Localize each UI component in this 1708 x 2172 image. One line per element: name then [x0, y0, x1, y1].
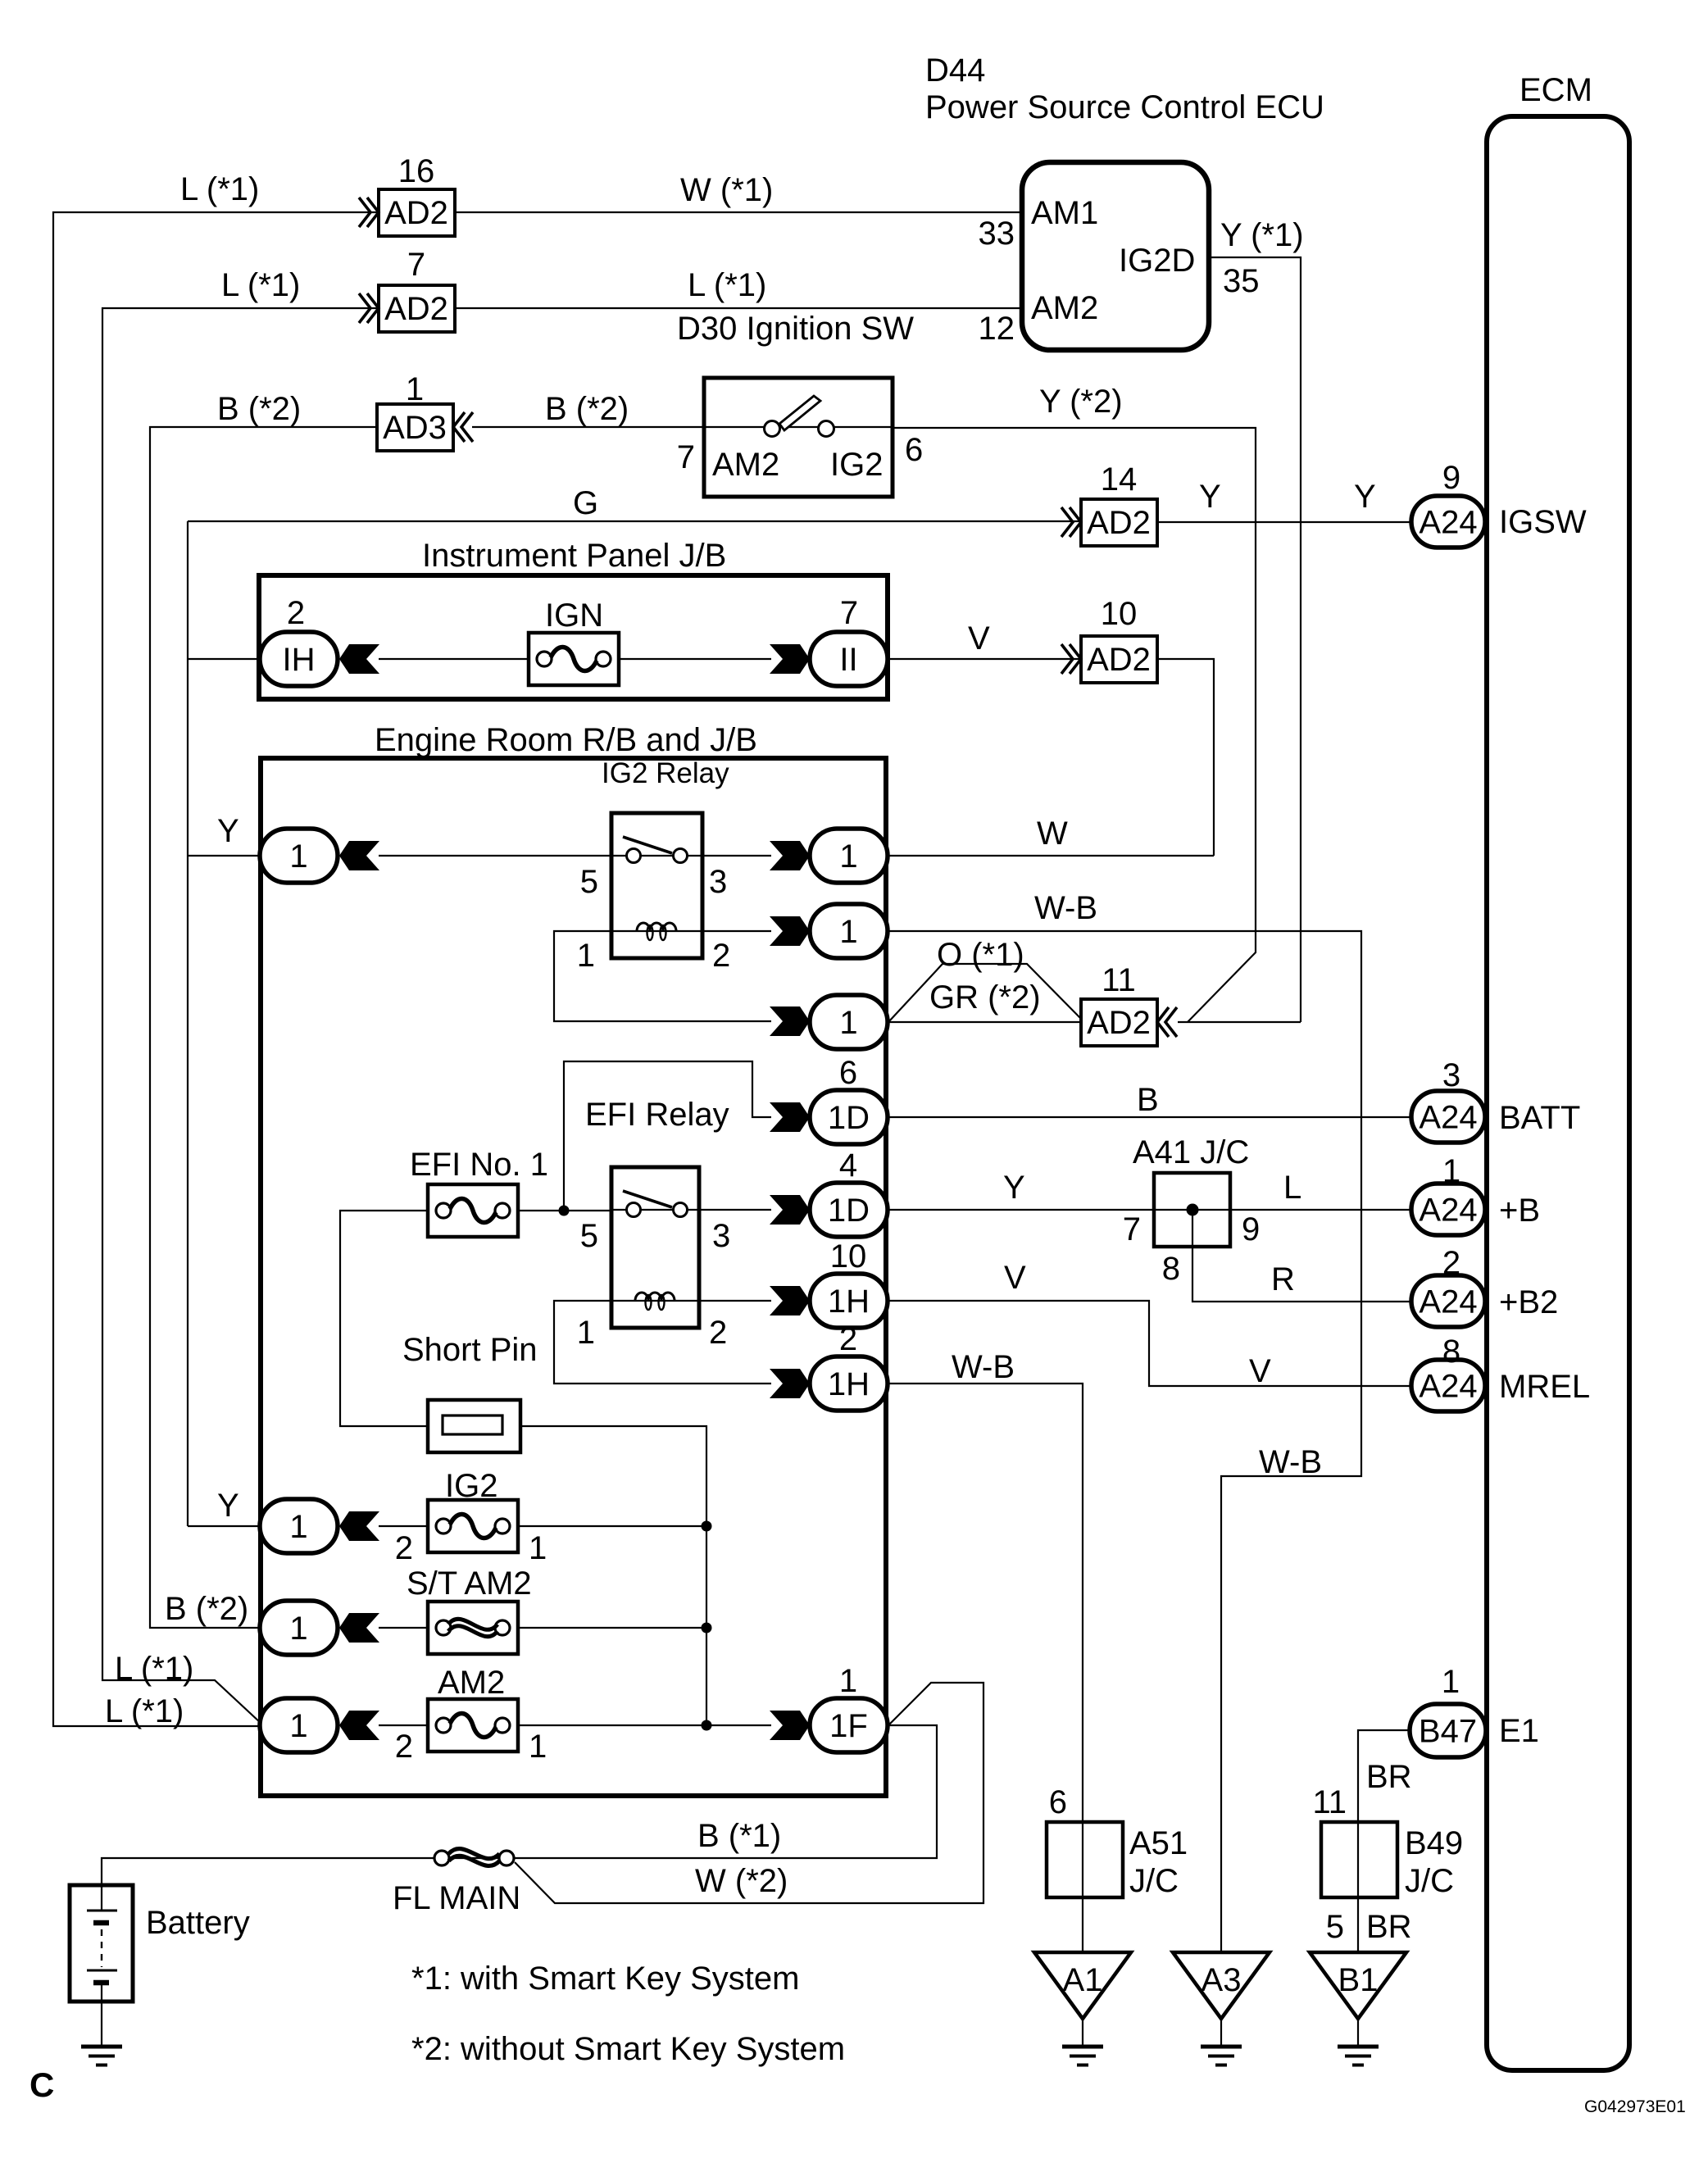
connector 1 (IG2 relay output) — [810, 829, 888, 883]
svg-text:AM2: AM2 — [712, 447, 779, 483]
svg-text:AD2: AD2 — [1087, 505, 1151, 541]
svg-text:AD2: AD2 — [384, 291, 448, 327]
wire from S/T AM2 fusible link to center bus — [379, 1627, 428, 1629]
svg-text:2: 2 — [1442, 1245, 1460, 1281]
svg-text:AM2: AM2 — [1031, 290, 1098, 326]
svg-text:B1: B1 — [1338, 1962, 1379, 1998]
svg-text:J/C: J/C — [1405, 1863, 1454, 1899]
wire from IG2 relay coil pin 2 to connector 1 — [702, 930, 771, 932]
junction connector A51 J/C — [1047, 1822, 1123, 1897]
Engine Room R/B and J/B box — [261, 758, 886, 1796]
ground triangle B1 — [1310, 1952, 1406, 2019]
wire from IGN fuse to connector II — [619, 658, 771, 660]
svg-text:L (*1): L (*1) — [105, 1693, 184, 1729]
ground triangle A1 — [1034, 1952, 1131, 2019]
svg-text:AD2: AD2 — [384, 195, 448, 231]
svg-text:IH: IH — [283, 642, 316, 678]
svg-text:1: 1 — [529, 1530, 547, 1566]
svg-text:L: L — [1283, 1170, 1301, 1206]
svg-text:BR: BR — [1366, 1759, 1412, 1795]
ground below battery — [81, 2045, 122, 2049]
svg-text:A3: A3 — [1202, 1962, 1242, 1998]
svg-text:IG2D: IG2D — [1119, 243, 1195, 279]
svg-text:8: 8 — [1442, 1334, 1460, 1370]
connector 1 (S/T AM2) — [260, 1601, 338, 1655]
svg-text:AM1: AM1 — [1031, 195, 1098, 231]
junction connector A41 J/C — [1154, 1173, 1230, 1247]
arrow into connector 1D pin 4 — [770, 1195, 810, 1225]
svg-text:AD2: AD2 — [1087, 1005, 1151, 1041]
connector 1D pin 6 — [810, 1090, 888, 1144]
wire Y stub to IG2 relay connector 1 — [188, 855, 261, 857]
ECM connector A24 pin 8 MREL — [1411, 1360, 1485, 1411]
svg-text:Y: Y — [1003, 1170, 1025, 1206]
wire through ignition switch — [704, 426, 893, 428]
svg-text:1F: 1F — [829, 1708, 868, 1744]
wire G from bus to AD2 14 — [188, 520, 1081, 522]
svg-text:Battery: Battery — [146, 1905, 250, 1941]
wire O(*1) upper branch of split to AD2 11 — [888, 964, 1081, 1022]
wire L from A41 J/C pin 9 to ECM A24 pin 1 +B — [1230, 1209, 1411, 1211]
connector AD2 pin 7 — [359, 293, 379, 323]
svg-text:R: R — [1271, 1261, 1295, 1297]
svg-text:B: B — [1137, 1082, 1159, 1118]
ECM connector A24 pin 9 IGSW — [1411, 496, 1485, 548]
ECM connector B47 pin 1 E1 — [1410, 1704, 1486, 1757]
svg-text:L (*1): L (*1) — [180, 171, 259, 207]
connector 1 (coil feed) — [810, 995, 888, 1049]
wire from connector to IG2 relay pin 5 — [379, 855, 611, 857]
arrow into connector 1H pin 10 — [770, 1286, 810, 1315]
svg-text:V: V — [1249, 1353, 1271, 1389]
wire stub to IH connector — [188, 658, 261, 660]
svg-text:V: V — [1004, 1260, 1026, 1296]
svg-text:B49: B49 — [1405, 1825, 1463, 1861]
wire Y stub to IG2 fuse connector 1 — [188, 1525, 261, 1527]
svg-text:1: 1 — [289, 1509, 307, 1545]
wire from EFI relay coil pin 1 to connector 1H pin 2 — [554, 1301, 771, 1384]
svg-text:IG2 Relay: IG2 Relay — [602, 757, 729, 789]
svg-text:11: 11 — [1312, 1784, 1347, 1820]
svg-text:6: 6 — [905, 432, 923, 468]
D44 Power Source Control ECU block — [1022, 162, 1209, 350]
wire V from connector II to AD2 10 — [888, 658, 1081, 660]
svg-text:W (*1): W (*1) — [680, 172, 773, 208]
wire W(*1) from AD2 16 to D44 AM1 pin 33 — [455, 211, 1022, 213]
svg-text:B (*1): B (*1) — [697, 1818, 781, 1854]
svg-text:35: 35 — [1223, 263, 1260, 299]
arrow into connector 1D pin 6 — [770, 1102, 810, 1132]
svg-text:4: 4 — [839, 1147, 857, 1184]
svg-text:GR (*2): GR (*2) — [929, 979, 1041, 1016]
svg-text:II: II — [839, 642, 857, 678]
svg-text:Engine Room R/B and J/B: Engine Room R/B and J/B — [375, 722, 757, 758]
svg-text:11: 11 — [1102, 962, 1136, 998]
svg-text:EFI Relay: EFI Relay — [585, 1097, 729, 1133]
svg-text:1: 1 — [289, 1708, 307, 1744]
svg-text:1: 1 — [577, 938, 595, 974]
D30 ignition switch box — [704, 378, 893, 497]
svg-text:1: 1 — [839, 838, 857, 875]
Instrument Panel J/B box — [259, 575, 888, 699]
wire from IG2 relay coil pin 1 to connector 1 row3 — [554, 931, 771, 1021]
svg-text:9: 9 — [1442, 460, 1460, 496]
svg-text:Y: Y — [217, 1488, 239, 1524]
fuse EFI No. 1 — [428, 1184, 518, 1237]
wire W-B from connector 1H down through A51 J/C to A1 ground — [888, 1384, 1083, 1952]
svg-text:2: 2 — [287, 595, 305, 631]
arrow into connector 1 row2 — [770, 916, 810, 946]
svg-text:G042973E01: G042973E01 — [1584, 2097, 1686, 2116]
svg-text:L (*1): L (*1) — [688, 267, 766, 303]
connector AD2 pin 11 — [1081, 999, 1157, 1046]
svg-text:7: 7 — [407, 247, 425, 283]
svg-text:16: 16 — [398, 153, 435, 189]
svg-text:1: 1 — [529, 1729, 547, 1765]
connector 1 (AM2 fuse) — [260, 1698, 338, 1752]
svg-text:A24: A24 — [1419, 1369, 1477, 1405]
svg-text:1D: 1D — [828, 1100, 870, 1136]
ECM connector block — [1487, 116, 1629, 2070]
wire stub A1 triangle to ground — [1082, 2019, 1083, 2047]
svg-text:1: 1 — [406, 371, 424, 407]
wire from AD2 10 down to W wire — [1157, 659, 1214, 856]
svg-text:Power Source Control ECU: Power Source Control ECU — [925, 89, 1324, 125]
ground symbol B1 — [1338, 2045, 1379, 2049]
svg-text:IG2: IG2 — [830, 447, 883, 483]
svg-text:2: 2 — [709, 1315, 727, 1351]
junction center bus / AM2 fuse — [702, 1720, 712, 1731]
wire L(*1) from AD2 7 down left bus 2 — [102, 308, 379, 1724]
svg-text:W (*2): W (*2) — [695, 1863, 788, 1899]
svg-text:6: 6 — [1049, 1784, 1067, 1820]
svg-text:7: 7 — [840, 595, 858, 631]
svg-text:Instrument Panel J/B: Instrument Panel J/B — [422, 538, 726, 574]
connector II pin 7 — [810, 632, 888, 686]
svg-text:B47: B47 — [1419, 1714, 1477, 1750]
arrow into IH — [339, 644, 379, 674]
wire from battery negative to ground — [101, 2002, 102, 2047]
wire from FL MAIN to battery — [102, 1858, 434, 1888]
svg-text:3: 3 — [1442, 1057, 1460, 1093]
svg-text:EFI No. 1: EFI No. 1 — [410, 1147, 548, 1183]
svg-text:L (*1): L (*1) — [221, 267, 300, 303]
wire B(*2) from AD3 to S/T AM2 connector (left bus 3) — [150, 427, 377, 1628]
svg-text:2: 2 — [395, 1530, 413, 1566]
wire BR from ECM B47 pin 1 E1 through B49 J/C to B1 ground — [1358, 1730, 1410, 1952]
wire EFI relay pin5 loop up to connector 1D pin 6 — [564, 1061, 771, 1211]
svg-text:1: 1 — [839, 1005, 857, 1041]
connector 1H pin 10 — [810, 1274, 888, 1328]
connector AD2 pin 14 — [1061, 507, 1081, 537]
svg-text:A51: A51 — [1129, 1825, 1188, 1861]
svg-text:1: 1 — [289, 1611, 307, 1647]
svg-text:+B: +B — [1499, 1193, 1540, 1229]
svg-text:W-B: W-B — [1259, 1444, 1322, 1480]
svg-text:7: 7 — [1123, 1211, 1141, 1247]
short pin component — [428, 1400, 520, 1452]
svg-text:BATT: BATT — [1499, 1100, 1580, 1136]
junction center bus / IG2 fuse — [702, 1521, 712, 1532]
wire W from IG2 relay output 1 — [888, 855, 1214, 857]
svg-text:J/C: J/C — [1129, 1863, 1179, 1899]
connector 1 (IG2 relay input) — [260, 829, 338, 883]
svg-text:O (*1): O (*1) — [937, 937, 1024, 973]
svg-text:2: 2 — [839, 1321, 857, 1357]
svg-text:2: 2 — [395, 1729, 413, 1765]
wire L(*1) from AD2 7 to D44 AM2 pin 12 — [455, 307, 1022, 309]
battery — [70, 1885, 133, 2002]
ignition switch contacts and blade — [779, 396, 820, 430]
svg-text:A1: A1 — [1063, 1962, 1103, 1998]
svg-text:6: 6 — [839, 1055, 857, 1091]
svg-text:7: 7 — [677, 439, 695, 475]
svg-text:A24: A24 — [1419, 1100, 1477, 1136]
arrow into connector 1 row3 — [770, 1006, 810, 1036]
arrow into connector 1H pin 2 — [770, 1369, 810, 1398]
svg-text:B (*2): B (*2) — [165, 1591, 248, 1627]
wire from IG2 relay pin 3 to output connector 1 — [702, 855, 771, 857]
svg-text:A41 J/C: A41 J/C — [1133, 1134, 1249, 1170]
svg-text:1: 1 — [1442, 1153, 1460, 1189]
svg-text:D44: D44 — [925, 52, 985, 89]
wire from IG2 fuse to center bus — [379, 1525, 428, 1527]
svg-text:A24: A24 — [1419, 505, 1477, 541]
svg-text:AD3: AD3 — [383, 410, 447, 446]
svg-text:MREL: MREL — [1499, 1369, 1590, 1405]
connector 1F pin 1 — [810, 1698, 888, 1752]
svg-text:Short Pin: Short Pin — [402, 1332, 538, 1368]
arrow into S/T AM2 connector — [339, 1613, 379, 1643]
ground symbol A1 — [1062, 2045, 1103, 2049]
relay EFI — [611, 1167, 699, 1328]
svg-text:10: 10 — [1101, 596, 1138, 632]
wire from AM2 fuse to connector 1F — [379, 1724, 428, 1726]
wire W-B from connector 1 down to A3 ground — [888, 931, 1361, 1952]
wire Y from AD2 14 to ECM A24 pin 9 IGSW — [1157, 521, 1411, 523]
svg-text:A24: A24 — [1419, 1193, 1477, 1229]
svg-text:Y: Y — [1354, 479, 1376, 515]
svg-text:1: 1 — [1442, 1664, 1460, 1700]
wire Y from connector 1D to A41 J/C pin 7 — [888, 1209, 1154, 1211]
svg-text:W: W — [1037, 816, 1068, 852]
svg-text:14: 14 — [1101, 461, 1138, 498]
connector 1 (coil output) — [810, 904, 888, 958]
svg-text:3: 3 — [709, 864, 727, 900]
wire B from connector 1D to ECM A24 pin 3 BATT — [888, 1116, 1411, 1118]
wire B(*2) from ignition switch AM2 to AD3 — [472, 426, 705, 428]
arrow into output connector 1 — [770, 841, 810, 870]
wire from EFI No.1 fuse to EFI relay pin 5 — [518, 1210, 611, 1211]
wire stub A3 triangle to ground — [1220, 2019, 1222, 2047]
svg-text:E1: E1 — [1499, 1713, 1539, 1749]
wire from AD2 11 right to Y(*1) vertical — [1178, 1021, 1301, 1023]
svg-text:1: 1 — [839, 914, 857, 950]
junction connector B49 J/C — [1321, 1822, 1397, 1897]
svg-text:+B2: +B2 — [1499, 1284, 1558, 1320]
svg-text:5: 5 — [1326, 1909, 1344, 1945]
svg-text:V: V — [968, 620, 990, 657]
junction center bus / S-T AM2 link — [702, 1623, 712, 1634]
relay IG2 — [611, 813, 702, 958]
svg-text:FL MAIN: FL MAIN — [393, 1880, 520, 1916]
wire GR(*2) lower branch to AD2 11 — [888, 1021, 1081, 1023]
wire from IH arrow to IGN fuse — [379, 658, 529, 660]
svg-text:A24: A24 — [1419, 1284, 1477, 1320]
svg-text:BR: BR — [1366, 1909, 1412, 1945]
connector 1 (IG2 fuse) — [260, 1499, 338, 1553]
svg-text:Y (*1): Y (*1) — [1220, 217, 1304, 253]
svg-text:9: 9 — [1242, 1211, 1260, 1247]
svg-text:10: 10 — [830, 1238, 867, 1275]
svg-text:W-B: W-B — [952, 1349, 1015, 1385]
arrow into II — [770, 644, 810, 674]
ground triangle A3 — [1173, 1952, 1270, 2019]
fuse IG2 — [428, 1500, 518, 1552]
svg-text:33: 33 — [979, 216, 1015, 252]
arrow into IG2 connector — [339, 1511, 379, 1541]
connector 1H pin 2 — [810, 1356, 888, 1411]
connector AD2 pin 10 — [1061, 644, 1081, 674]
wire from Short Pin to center bus — [520, 1426, 706, 1725]
wire from EFI relay pin 3 to connector 1D pin 4 — [699, 1209, 771, 1211]
arrow into AM2 connector — [339, 1711, 379, 1740]
fusible link S/T AM2 — [428, 1602, 518, 1654]
wire V from connector 1H to ECM A24 pin 8 MREL — [888, 1301, 1411, 1386]
svg-text:1D: 1D — [828, 1193, 870, 1229]
svg-text:IGN: IGN — [545, 598, 603, 634]
svg-text:12: 12 — [979, 311, 1015, 347]
arrow into connector 1F — [770, 1711, 810, 1740]
svg-text:3: 3 — [712, 1218, 730, 1254]
svg-text:D30 Ignition SW: D30 Ignition SW — [677, 311, 914, 347]
svg-text:Y: Y — [1199, 479, 1221, 515]
ECM connector A24 pin 2 +B2 — [1411, 1275, 1485, 1327]
junction at EFI No.1 fuse / EFI relay pin 5 — [559, 1206, 570, 1216]
fusible link FL MAIN — [434, 1851, 449, 1865]
svg-text:5: 5 — [580, 864, 598, 900]
fuse AM2 — [428, 1699, 518, 1752]
svg-text:B (*2): B (*2) — [217, 391, 301, 427]
connector 1D pin 4 — [810, 1183, 888, 1237]
wire from left loop to EFI No.1 fuse and Short Pin — [340, 1211, 428, 1426]
connector AD2 pin 16 — [359, 198, 379, 227]
svg-text:L (*1): L (*1) — [115, 1651, 193, 1687]
svg-text:AD2: AD2 — [1087, 642, 1151, 678]
svg-text:G: G — [573, 485, 598, 521]
wire Y(*1) from D44 IG2D pin 35 down to AD2 11 — [1209, 257, 1301, 1022]
svg-text:1H: 1H — [828, 1366, 870, 1402]
wire stub B1 triangle to ground — [1357, 2019, 1359, 2047]
wire Y(*2) from ignition switch IG2 down to AD2 11 — [892, 428, 1256, 1022]
wire R from A41 J/C pin 8 to ECM A24 pin 2 +B2 — [1192, 1210, 1411, 1302]
svg-text:1: 1 — [289, 838, 307, 875]
svg-text:Y (*2): Y (*2) — [1039, 384, 1123, 420]
wire L(*1) from AD2 16 to AM2 fuse connector (left bus) — [53, 212, 379, 1726]
svg-text:1: 1 — [839, 1663, 857, 1699]
wire W(*2) from connector 1F to FL MAIN — [515, 1683, 983, 1903]
svg-text:W-B: W-B — [1034, 890, 1097, 926]
ECM connector A24 pin 3 BATT — [1411, 1091, 1485, 1143]
svg-text:2: 2 — [712, 938, 730, 974]
svg-text:AM2: AM2 — [438, 1665, 505, 1701]
connector IH pin 2 — [260, 632, 338, 686]
fuse IGN — [529, 633, 619, 685]
wire from EFI relay coil pin 2 to connector 1H pin 10 — [699, 1300, 771, 1302]
arrow into connector 1 — [339, 841, 379, 870]
connector AD3 pin 1 — [377, 404, 453, 451]
ground symbol A3 — [1201, 2045, 1242, 2049]
svg-text:S/T AM2: S/T AM2 — [407, 1565, 532, 1602]
svg-text:B (*2): B (*2) — [545, 391, 629, 427]
svg-text:1H: 1H — [828, 1284, 870, 1320]
svg-text:Y: Y — [217, 813, 239, 849]
ECM connector A24 pin 1 +B — [1411, 1184, 1485, 1235]
svg-text:8: 8 — [1162, 1251, 1180, 1287]
wire G vertical bus: G wire / IH / IG2-relay Y / IG2-fuse Y — [187, 521, 189, 1526]
svg-text:1: 1 — [577, 1315, 595, 1351]
svg-text:*2: without Smart Key System: *2: without Smart Key System — [411, 2031, 845, 2067]
svg-text:5: 5 — [580, 1218, 598, 1254]
svg-text:*1: with Smart Key System: *1: with Smart Key System — [411, 1961, 799, 1997]
wire through A41 J/C — [1154, 1209, 1230, 1211]
svg-text:C: C — [30, 2065, 54, 2104]
wire B(*1) from connector 1F to FL MAIN — [449, 1725, 937, 1858]
svg-text:IGSW: IGSW — [1499, 504, 1587, 540]
svg-text:ECM: ECM — [1519, 72, 1592, 108]
